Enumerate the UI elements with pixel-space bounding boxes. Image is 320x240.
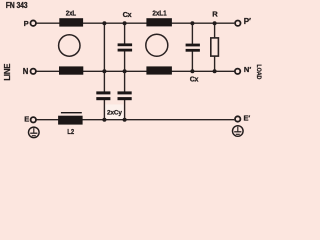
svg-text:Cx: Cx: [123, 10, 133, 19]
svg-text:N: N: [23, 67, 29, 76]
svg-text:2xCy: 2xCy: [107, 110, 122, 117]
svg-text:LOAD: LOAD: [255, 64, 262, 80]
svg-text:LINE: LINE: [3, 64, 12, 81]
svg-text:L2: L2: [67, 129, 74, 137]
svg-text:P: P: [24, 19, 29, 28]
svg-text:N′: N′: [244, 65, 251, 74]
svg-text:R: R: [212, 9, 218, 18]
svg-text:P′: P′: [244, 17, 251, 26]
svg-text:E′: E′: [244, 114, 251, 123]
svg-text:2xL: 2xL: [66, 10, 76, 18]
svg-text:Cx: Cx: [190, 77, 199, 84]
svg-text:FN 343: FN 343: [6, 1, 28, 11]
svg-text:E: E: [24, 115, 29, 124]
svg-text:2xL1: 2xL1: [152, 10, 166, 18]
